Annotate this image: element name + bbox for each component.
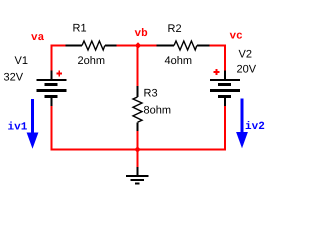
- svg-text:iv2: iv2: [245, 121, 265, 133]
- svg-text:vb: vb: [135, 28, 149, 40]
- voltage source V1 (battery): [37, 71, 67, 107]
- svg-text:R1: R1: [73, 23, 87, 35]
- voltage source V2 (battery): [210, 71, 240, 107]
- resistor R1: [66, 41, 117, 50]
- wire bottom-left vertical (below V1): [51, 106, 53, 151]
- V1 plus sign: [56, 71, 62, 77]
- current arrow iv2: [236, 99, 248, 149]
- svg-text:R2: R2: [168, 23, 182, 35]
- wire top-left vertical (va branch): [51, 45, 53, 72]
- svg-text:8ohm: 8ohm: [144, 105, 172, 117]
- wire middle top vertical (vb to R3): [137, 45, 139, 87]
- svg-text:R3: R3: [144, 88, 158, 100]
- svg-text:V1: V1: [15, 55, 28, 67]
- wire bottom-right vertical (below V2): [224, 106, 226, 151]
- bottom node junction dot: [134, 146, 140, 152]
- svg-text:4ohm: 4ohm: [165, 55, 193, 67]
- wire top-right vertical (vc branch): [224, 45, 226, 72]
- ground: [126, 167, 149, 184]
- wire top horizontal left segment (va to R1): [51, 45, 67, 47]
- resistor R2: [157, 41, 210, 50]
- node vb junction dot: [135, 42, 141, 48]
- svg-text:2ohm: 2ohm: [78, 55, 106, 67]
- svg-text:20V: 20V: [237, 64, 257, 76]
- svg-text:iv1: iv1: [8, 122, 28, 134]
- wire bottom horizontal: [51, 149, 227, 151]
- svg-text:V2: V2: [239, 49, 252, 61]
- resistor R3 (vertical): [133, 86, 142, 131]
- svg-text:va: va: [31, 32, 45, 44]
- wire middle bottom vertical (R3 to bottom node): [137, 131, 139, 168]
- V2 plus sign: [214, 69, 220, 75]
- svg-text:vc: vc: [230, 31, 243, 43]
- current arrow iv1: [27, 99, 39, 149]
- svg-text:32V: 32V: [4, 72, 24, 84]
- wire top horizontal right segment (R2 to vc): [209, 45, 226, 47]
- wire top horizontal middle segment (R1 to R2 through vb): [116, 45, 157, 47]
